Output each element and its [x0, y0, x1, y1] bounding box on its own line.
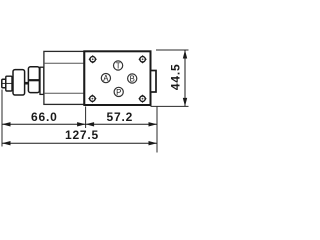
svg-text:66.0: 66.0 — [31, 110, 58, 124]
stem between nuts — [25, 82, 29, 85]
small hex nut — [13, 70, 25, 95]
svg-text:44.5: 44.5 — [168, 64, 182, 91]
extension line 44.5 bottom — [151, 105, 189, 107]
svg-text:127.5: 127.5 — [65, 128, 99, 142]
svg-text:P: P — [116, 88, 121, 97]
svg-text:57.2: 57.2 — [107, 110, 134, 124]
mounting hole top-right — [138, 55, 146, 63]
large hex nut — [28, 67, 39, 93]
nameplate tab — [151, 71, 157, 93]
extension line middle — [85, 107, 87, 129]
port T — [114, 61, 123, 71]
svg-text:A: A — [103, 74, 109, 83]
valve body (port face) — [84, 51, 150, 105]
dim line 66.0 — [2, 122, 86, 126]
port B — [128, 74, 137, 84]
port P — [114, 87, 123, 97]
svg-text:B: B — [130, 74, 135, 83]
push pin cap — [2, 79, 6, 88]
washer — [40, 67, 44, 94]
port A — [101, 74, 110, 84]
solenoid coil — [44, 51, 84, 104]
dim line 127.5 — [2, 141, 157, 145]
mounting hole bottom-right — [138, 95, 146, 103]
svg-text:T: T — [116, 61, 121, 70]
dim line 57.2 — [86, 122, 157, 126]
pin collar — [6, 76, 12, 91]
mounting hole top-left — [89, 55, 97, 63]
extension line 44.5 top — [156, 49, 189, 51]
mounting hole bottom-left — [88, 94, 96, 102]
extension line right — [156, 107, 158, 153]
dim line 44.5 vertical — [183, 50, 187, 106]
extension line left — [1, 90, 3, 147]
